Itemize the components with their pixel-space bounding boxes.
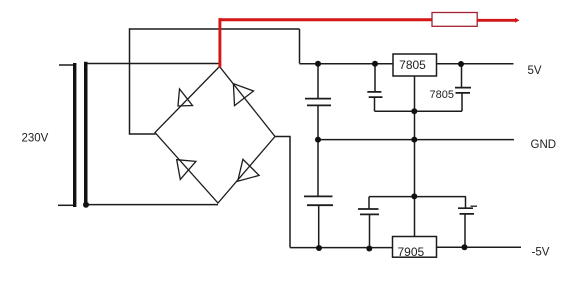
- transformer T1 primary stub top: [59, 64, 74, 66]
- capacitor C4 leads (x=318 lower): [317, 140, 320, 248]
- svg-text:7805: 7805: [430, 89, 454, 101]
- transformer T1 primary stub bottom: [58, 204, 74, 206]
- wire top loop from bridge-left node up and over to +rail corner: [130, 28, 300, 30]
- junction dot +rail x461: [458, 61, 464, 67]
- junction at secondary bottom: [83, 202, 89, 208]
- diode D2 upper-right: [233, 84, 253, 106]
- wire vertical left x=129 down to bridge left node: [130, 28, 156, 134]
- GND rail: [318, 139, 514, 141]
- transformer T1 primary bar: [73, 63, 76, 207]
- highlighted red wire horizontal left: [219, 18, 433, 21]
- regulator U2 box 7905: [393, 237, 437, 258]
- svg-text:GND: GND: [531, 139, 557, 151]
- svg-text:230V: 230V: [22, 132, 49, 144]
- regulator U1 box 7805: [393, 54, 437, 76]
- capacitor C3 plates: [455, 88, 471, 93]
- highlighted red wire vertical from bridge top: [218, 18, 221, 67]
- +5V rail left segment: [300, 63, 394, 65]
- capacitor C1 leads (x=318 upper): [317, 64, 319, 140]
- junction dot mid x414 y111: [411, 108, 417, 114]
- svg-text:7805: 7805: [399, 58, 426, 72]
- capacitor C5 plates: [358, 209, 379, 214]
- resistor R1 (red outline): [432, 13, 477, 27]
- capacitor C2 plates: [367, 92, 382, 97]
- junction dot -5V x319: [316, 245, 322, 251]
- capacitor C6 plates: [458, 208, 474, 214]
- junction dot +rail x318: [315, 61, 321, 67]
- wire vertical x=299 down to +5V rail: [299, 29, 301, 64]
- bridge diamond wires: [155, 67, 275, 204]
- capacitor C2 leads (x=375): [375, 64, 415, 111]
- svg-text:5V: 5V: [528, 65, 542, 77]
- -5V rail left segment: [290, 247, 393, 249]
- wire bridge right node to down rail: [275, 137, 290, 248]
- junction dot +rail x375: [372, 61, 378, 67]
- red wire arrow tip: [515, 18, 520, 23]
- lower mid horizontal wire y=196.5: [369, 196, 466, 198]
- diode D3 lower-left: [177, 160, 196, 180]
- svg-text:7905: 7905: [398, 245, 425, 259]
- wire secondary bottom to bridge: [88, 204, 219, 206]
- capacitor C6 leads (x=465.5): [464, 197, 467, 248]
- junction dot x414 y196: [411, 193, 417, 199]
- regulator U1 pin down: [414, 76, 416, 237]
- wire secondary top to bridge: [88, 63, 220, 65]
- capacitor C5 leads (x=369): [368, 197, 371, 248]
- svg-text:-5V: -5V: [532, 247, 550, 259]
- junction dot GND x414: [411, 137, 417, 143]
- junction dot -5V x464.5: [462, 244, 468, 250]
- +5V rail right segment: [437, 63, 514, 65]
- diode D1 upper-left: [178, 89, 193, 106]
- junction dot GND x318: [315, 137, 321, 143]
- diode D4 lower-right: [238, 159, 259, 181]
- -5V rail right segment: [437, 246, 522, 248]
- capacitor C6 polarity tick: [471, 205, 478, 207]
- highlighted red wire horizontal right: [477, 19, 515, 22]
- capacitor C1 plates: [305, 99, 331, 106]
- junction dot -5V x369: [366, 246, 372, 252]
- capacitor C3 leads (x=461.5): [415, 64, 463, 111]
- capacitor C4 plates: [304, 196, 333, 205]
- transformer T1 secondary bar: [84, 62, 88, 208]
